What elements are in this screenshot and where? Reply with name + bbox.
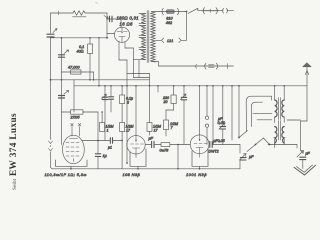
resistor R6 box x102 lower — [100, 123, 105, 132]
svg-text:180Ω 0,31: 180Ω 0,31 — [117, 15, 140, 20]
wire C2 to tube V1 grid — [118, 19, 122, 28]
mains connector bar — [202, 10, 219, 12]
wire x74 anode feed — [73, 86, 75, 112]
svg-text:0ω78: 0ω78 — [160, 149, 169, 153]
T1 primary stubs mid2 — [139, 35, 146, 37]
wire x98 down — [97, 112, 99, 141]
wire T3 right bottom — [283, 139, 285, 144]
T1 primary stub bottom — [139, 59, 146, 61]
wire x122 stub top — [121, 86, 123, 95]
wire jack lower down — [206, 128, 208, 145]
heater wire end tick — [227, 64, 229, 69]
wire T1 bottom-left into circuit — [134, 59, 140, 61]
wire antenna down-lead — [50, 13, 52, 33]
resistor R10 box x165.5 upper — [171, 95, 176, 104]
wire y119.5 link — [257, 119, 272, 121]
svg-text:μF: μF — [148, 137, 154, 141]
tube V4 anode — [196, 148, 203, 158]
wire y73.5 link to transformer drop — [127, 73, 150, 75]
dial lamp plug right arc — [216, 63, 217, 69]
jack middle dot — [50, 145, 51, 146]
pickup jack chevron lower — [49, 149, 53, 152]
wire x79.6 into tube V2 — [79, 127, 81, 137]
wire C1 to grid bus — [50, 37, 52, 39]
node dot anode junction — [121, 140, 123, 142]
wire V1 pin down — [119, 52, 127, 60]
node dot S2 — [255, 144, 257, 146]
wire x149.5 vertical — [149, 86, 151, 123]
wire C13 feed — [301, 150, 303, 153]
trimmer arrow on C2 — [104, 16, 108, 19]
wire after coupling cap — [113, 140, 122, 142]
wire y77.5 link — [134, 77, 150, 79]
wire x99 vertical grid-bus to rail — [98, 38, 100, 86]
wire R2 top — [89, 38, 91, 44]
wave switch loop outer — [246, 96, 271, 131]
wire x127 long vertical — [126, 60, 128, 163]
wire T1 secondary top to fuse row — [151, 11, 161, 13]
fuse F1 cartridge — [166, 10, 174, 14]
svg-text:2: 2 — [126, 101, 129, 105]
resistor R4 box on y112 — [71, 110, 84, 114]
T1 primary stub top — [139, 13, 146, 15]
resistor R1 antenna series (zigzag) — [73, 11, 85, 15]
heater U tick V4 — [199, 166, 201, 169]
heater U bracket under V4 — [192, 165, 208, 167]
tube V3 cathode dot — [135, 140, 136, 141]
svg-text:EW 374 Luxus: EW 374 Luxus — [9, 113, 19, 176]
trimmer capacitor C6 on x105 — [102, 94, 107, 99]
tube V1 anode — [119, 37, 125, 43]
wire grid coupling y19 — [107, 18, 118, 20]
tube V1 cathode pins — [118, 41, 120, 52]
node dot x239 bottom — [238, 137, 240, 139]
wire R11 link — [166, 109, 174, 111]
wire y113 link to output transformer — [253, 112, 272, 114]
svg-text:121: 121 — [167, 39, 174, 43]
resistor R9 box x149.5 — [147, 123, 152, 132]
choke T3 winding right — [282, 127, 284, 144]
antenna terminal tick — [58, 11, 60, 15]
wire right end corner — [296, 145, 298, 149]
detector plug symbol on y66 line (left) — [195, 64, 198, 68]
wire row2 to selector vertical — [182, 39, 187, 41]
capacitor C3 on x61.5 — [59, 54, 65, 56]
T1 secondary winding tall — [151, 12, 156, 62]
voltage selector vertical — [186, 12, 188, 41]
resistor R2 0,1/40k vertical box — [88, 44, 93, 54]
pickup jack chevron upper — [49, 141, 53, 144]
wire R7 bottom to anode junction and rail — [121, 132, 123, 169]
capacitor C7 x111 — [109, 96, 114, 98]
node dot x178 — [177, 144, 179, 146]
wire V1 pin to transformer — [125, 48, 134, 60]
capacitor C14 coupling bars — [109, 138, 111, 144]
wire x105 vertical rail to anode — [104, 86, 106, 141]
output transformer T2 secondary winding — [282, 100, 284, 117]
trimmer capacitor C13 right-bottom — [297, 151, 304, 158]
resistor R8 grid-leak box — [161, 143, 170, 147]
ground chassis arrow — [294, 165, 316, 175]
svg-text:40Ω: 40Ω — [77, 49, 84, 53]
wire x232 vertical — [231, 86, 233, 140]
wire R8 to tube V4 — [170, 144, 191, 146]
wire V2 anode y140.5 — [82, 140, 110, 142]
wire x111 stub — [110, 86, 112, 97]
wire y73 branch — [62, 71, 94, 73]
wave switch loop inner — [251, 102, 262, 126]
trimmer arrow C4 — [64, 91, 69, 95]
capacitor C11 output coupling — [209, 142, 211, 148]
switch S3 contact dot — [197, 8, 199, 10]
T1 primary stubs mid3 — [139, 47, 146, 49]
tube V3 anode — [133, 148, 140, 158]
arrowhead up on stem — [305, 71, 309, 75]
capacitor C8 coupling — [151, 141, 153, 147]
heater U bracket under V2 — [56, 165, 88, 167]
svg-text:1: 1 — [107, 128, 109, 132]
capacitor C5 1uF — [95, 153, 100, 155]
wire mains end — [219, 10, 224, 12]
T1 primary stubs mid1 — [139, 23, 146, 25]
trimmer arrow on C1 — [53, 29, 57, 33]
wire C13 down — [302, 160, 304, 169]
tube V2 pins to heater U — [55, 160, 57, 166]
tube V4 grid dashes — [194, 135, 207, 144]
mains connector right paren — [216, 8, 217, 14]
wire x184 stub top — [183, 86, 185, 98]
wire C12 top to switch — [239, 145, 241, 154]
switch blade S1 — [239, 131, 248, 138]
power transformer T1 primary winding sections — [142, 14, 146, 24]
svg-text:110,3ω/1P 1Ω; 5,3ω: 110,3ω/1P 1Ω; 5,3ω — [45, 173, 87, 177]
heater U tick V3 — [137, 166, 139, 169]
gramophone jack terminal lower — [205, 124, 208, 127]
svg-text:μ1: μ1 — [107, 146, 112, 150]
svg-text:0,1: 0,1 — [79, 45, 84, 49]
antenna wire top-left horizontal — [51, 12, 74, 14]
wire x61.5 long vertical — [61, 38, 63, 145]
trimmer capacitor C12 bottom-left of switch — [240, 154, 247, 161]
capacitor C2 grid series — [109, 16, 111, 22]
node dot S3 — [186, 11, 188, 13]
wire x107 stub to V1 grid left — [107, 33, 115, 35]
wire y144.5 to switch area — [212, 144, 240, 146]
tube V4 envelope — [190, 135, 209, 154]
choke T3 winding left — [275, 127, 277, 144]
junction dots rail A — [61, 79, 63, 81]
wire x178 down to rail — [177, 145, 179, 169]
wire S3 to connector — [198, 10, 202, 12]
tube V3 grid dashes — [131, 136, 144, 144]
switch S2 falling contact — [264, 138, 270, 145]
selector row2 left bracket — [161, 38, 163, 43]
resistor R5 box x122 upper — [120, 95, 125, 104]
heater U bracket under V3 — [130, 165, 146, 167]
node dot S2 right — [269, 144, 271, 146]
resistor R3 47000 horizontal box — [71, 70, 82, 74]
resistor R11 box x166 lower — [164, 120, 169, 130]
mains plug small left paren — [222, 8, 225, 13]
svg-text:462: 462 — [166, 21, 173, 25]
wire heater bus y112 left — [62, 111, 71, 113]
output transformer T2 primary winding — [275, 100, 277, 117]
svg-text:27І05: 27І05 — [70, 116, 80, 120]
wire x139 from T1 stub — [138, 60, 140, 78]
mains connector left paren — [203, 8, 204, 14]
wire switch row right — [268, 144, 297, 146]
small mark top (smudge) — [96, 2, 98, 5]
electrode mark x left — [71, 124, 73, 126]
fuse F1 holder left clip — [162, 8, 163, 14]
svg-text:1001 N3β: 1001 N3β — [186, 172, 207, 177]
wire F1 to switch — [179, 11, 187, 13]
tube V4 heater pins — [191, 151, 193, 166]
trimmer capacitor C10 x222 — [219, 123, 225, 129]
wire y112 right — [83, 111, 98, 113]
wire C8 to R8 — [155, 144, 162, 146]
trimmer arrow on C3 — [64, 50, 69, 54]
wire x136 stub to tube V3 — [135, 86, 137, 136]
wire rail link x74 — [73, 80, 75, 86]
T1 secondary mid tap arrow — [156, 39, 161, 41]
left rail vertical — [50, 38, 52, 140]
svg-text:DWT2: DWT2 — [209, 149, 219, 153]
wire T2-T3 link right — [283, 117, 285, 122]
wire C5 top — [97, 141, 99, 154]
wire T2-T3 link left — [274, 117, 276, 122]
heater supply wire y66 — [159, 65, 234, 67]
wire jog right-bottom — [301, 121, 308, 150]
mains connector tick — [209, 9, 211, 12]
svg-text:16 Ω6: 16 Ω6 — [120, 21, 133, 26]
wire x158 stub — [157, 86, 159, 92]
wire resistor R1 to node at x107 — [85, 12, 107, 14]
wire x199.5 stub to tube V4 — [199, 86, 201, 135]
wire T3 left bottom — [274, 139, 276, 147]
wire R10 bottom — [173, 104, 175, 110]
wire x184 down — [183, 100, 185, 145]
T2 core lines — [279, 98, 281, 120]
svg-text:μF0,05: μF0,05 — [213, 139, 225, 143]
wire C10 down — [222, 129, 224, 145]
node dot x107 y37.8 — [106, 37, 108, 39]
wire x239 vertical — [238, 86, 240, 138]
mains plug small right paren — [226, 8, 229, 13]
wire x307 right vertical — [306, 86, 308, 121]
left rail vertical lower — [51, 152, 53, 169]
wire C12 to bottom rail — [239, 160, 241, 169]
wire V3 anode right — [145, 144, 151, 146]
wire x166 lower vertical — [165, 110, 167, 120]
wire horizontal grid bus y37.8 — [51, 37, 109, 39]
tube V3 envelope — [127, 136, 145, 154]
wire x122 below — [121, 104, 123, 123]
trimmer capacitor C9 x184 — [181, 94, 187, 100]
antenna/mains arrow symbol top right — [303, 63, 312, 67]
wire T2 primary top — [274, 86, 276, 100]
wire x93.5 stub — [93, 72, 95, 80]
svg-text:20: 20 — [163, 100, 168, 104]
wire C5 bottom to rail — [97, 156, 99, 168]
main rail B y85.8 — [74, 85, 307, 87]
wire R11 bottom — [165, 130, 167, 136]
electrode mark x right — [78, 124, 80, 126]
heater U center tick — [70, 166, 72, 169]
tube V4 cathode dot — [199, 139, 200, 140]
svg-text:47.000: 47.000 — [68, 65, 81, 69]
node dot x102 y112 — [101, 111, 103, 113]
wire R10 top stub — [173, 86, 175, 95]
dial lamp plug bars — [209, 65, 215, 67]
tube V1 grid electrode — [117, 27, 127, 31]
tube V1 inner dot — [121, 32, 122, 33]
wire x133.5 from T1 bottom — [133, 60, 135, 78]
bottom rail — [52, 168, 240, 170]
wire C10 stub top — [222, 86, 224, 127]
gramophone jack terminal upper — [205, 116, 208, 119]
junction dots bottom rail — [70, 168, 72, 170]
capacitor C4 with trimmer on x61.5 — [59, 95, 65, 97]
tube V2 inner grid dashes — [66, 143, 79, 157]
dial lamp plug symbol left arc — [205, 63, 206, 69]
wire x149.5 drop to rail B — [149, 74, 151, 86]
wire node x107 vertical — [106, 13, 108, 38]
wire T2 secondary top — [283, 86, 285, 100]
main rail A y79.8 — [51, 79, 150, 81]
capacitor C1 antenna series — [47, 33, 54, 35]
svg-text:108 N3β: 108 N3β — [123, 172, 141, 177]
T3 core lines — [279, 121, 281, 141]
wire R9 bottom — [149, 132, 151, 136]
mains switch S3 blade — [188, 9, 197, 14]
svg-text:810: 810 — [166, 17, 173, 21]
node dot x98 y138.5 — [97, 140, 99, 142]
tube V2 inner electrode ticks — [70, 139, 78, 162]
wire R2 bottom down to rail — [89, 54, 91, 80]
wire T1 secondary bottom — [151, 62, 158, 67]
node dots on grid bus y37.8 — [61, 37, 63, 39]
tube V3 heater pins — [129, 152, 131, 166]
T1 core lines — [147, 11, 149, 63]
switch blade S2 — [256, 138, 264, 145]
wire S2 left — [247, 145, 256, 152]
wire x72 into tube V2 — [71, 127, 73, 137]
svg-text:0,05: 0,05 — [218, 121, 225, 125]
wire x207 jack feed — [206, 86, 208, 116]
tube V2 envelope (oval output valve) — [63, 135, 85, 164]
junction dots rail B — [98, 85, 100, 87]
svg-text:Seibt: Seibt — [12, 178, 18, 190]
fuse F1 through-line — [162, 11, 180, 13]
wire trafo2 right y119 — [287, 119, 301, 121]
wire R6 top — [101, 112, 103, 123]
wire x213 vertical — [212, 86, 214, 145]
svg-text:μF: μF — [305, 152, 311, 156]
node dot left rail / rail A — [50, 79, 52, 81]
svg-text:μF: μF — [248, 155, 254, 159]
tube V1 envelope (RF valve) — [114, 27, 129, 42]
selector row2 right bracket — [179, 38, 181, 43]
fuse F1 holder right clip — [177, 8, 178, 14]
resistor R1 fixed-bar marking — [73, 16, 87, 18]
resistor R7 box x122 lower — [120, 123, 125, 132]
